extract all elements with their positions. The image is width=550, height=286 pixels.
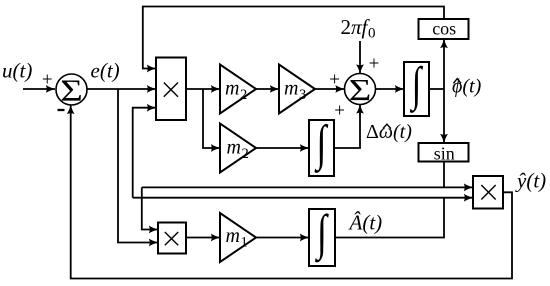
wire sin branch down to multiplier M2 top input	[142, 187, 158, 229]
multiplier M3 (A-hat x sin = y-hat)	[473, 176, 503, 209]
wire m3 to summer S2	[315, 88, 345, 90]
svg-text:2: 2	[240, 87, 247, 103]
integrator I3 (amplitude)	[309, 209, 335, 266]
svg-text:ŷ(t): ŷ(t)	[515, 169, 546, 193]
wire phi-hat up into cos	[443, 39, 445, 89]
wire phi-hat down into sin	[443, 89, 445, 143]
svg-text:Σ: Σ	[349, 73, 372, 107]
wire top rail from cos output to multiplier M1 top input	[143, 7, 444, 69]
svg-text:sin: sin	[434, 143, 455, 163]
wire A-hat distribution line into multiplier M3 bottom input	[133, 197, 473, 199]
gain m2 (phase path)	[220, 65, 256, 114]
wire A-hat output right and up to A-hat distribution line	[335, 198, 444, 238]
wire e(t) branch down to multiplier M2 bottom input	[118, 89, 158, 243]
svg-text:Σ: Σ	[60, 73, 83, 107]
sin block	[419, 143, 469, 162]
svg-text:2πf: 2πf	[341, 15, 371, 39]
integrator I1 (phase)	[404, 62, 429, 116]
wire lower m2 to integrator I2	[256, 147, 309, 149]
wire branch from A-hat line to multiplier M1 bottom input	[133, 108, 156, 198]
gain m2 (frequency path)	[220, 124, 256, 173]
svg-text:+: +	[369, 54, 380, 75]
wire delta-omega-hat up into S2 bottom	[334, 105, 360, 149]
wire m1 to integrator I3	[256, 237, 309, 239]
svg-text:3: 3	[299, 87, 306, 103]
wire M1 output to gain m2	[186, 88, 220, 90]
svg-text:m: m	[284, 78, 298, 100]
label 2 pi f0	[341, 15, 371, 39]
multiplier M1 (e x cos)	[156, 58, 186, 121]
svg-text:0: 0	[368, 26, 376, 42]
svg-text:e(t): e(t)	[91, 59, 120, 83]
wire 2 pi f0 down into S2	[359, 41, 361, 74]
svg-text:m: m	[226, 225, 240, 247]
wire e(t) from S1 to multiplier M1	[87, 88, 156, 90]
integrator I2 (frequency)	[309, 120, 334, 176]
cos block	[419, 19, 469, 39]
wire sin distribution line into multiplier M3 top input	[142, 186, 473, 188]
multiplier M2 (e x sin)	[158, 223, 186, 254]
summing junction S2	[345, 74, 376, 105]
svg-text:+: +	[334, 101, 345, 122]
wire S2 to integrator I1	[376, 88, 405, 90]
svg-text:cos: cos	[432, 19, 456, 39]
label minus sign at summer S1	[58, 109, 65, 111]
wire y-hat feedback: right, down, bottom rail, up into S1 minus input	[71, 105, 512, 279]
svg-text:1: 1	[241, 234, 248, 250]
svg-text:+: +	[329, 70, 340, 91]
wire I1 output to phi-hat node	[429, 88, 444, 90]
svg-text:+: +	[42, 70, 53, 91]
svg-text:Δω(t): Δω(t)	[366, 121, 412, 143]
gain m3	[279, 65, 315, 114]
svg-text:u(t): u(t)	[2, 59, 32, 83]
gain m1	[220, 213, 256, 262]
svg-text:2: 2	[242, 146, 249, 162]
summing junction S1	[56, 74, 87, 105]
svg-text:m: m	[227, 137, 241, 159]
wire M2 output to gain m1	[186, 237, 220, 239]
wire m2 to m3	[256, 88, 279, 90]
wire sin output down to sin distribution line	[443, 162, 445, 188]
wire u(t) input	[23, 88, 55, 90]
svg-text:m: m	[225, 78, 239, 100]
wire branch from M1 output down to lower gain m2	[203, 89, 220, 148]
svg-text:∫: ∫	[409, 59, 423, 114]
svg-text:Â(t): Â(t)	[348, 211, 383, 235]
